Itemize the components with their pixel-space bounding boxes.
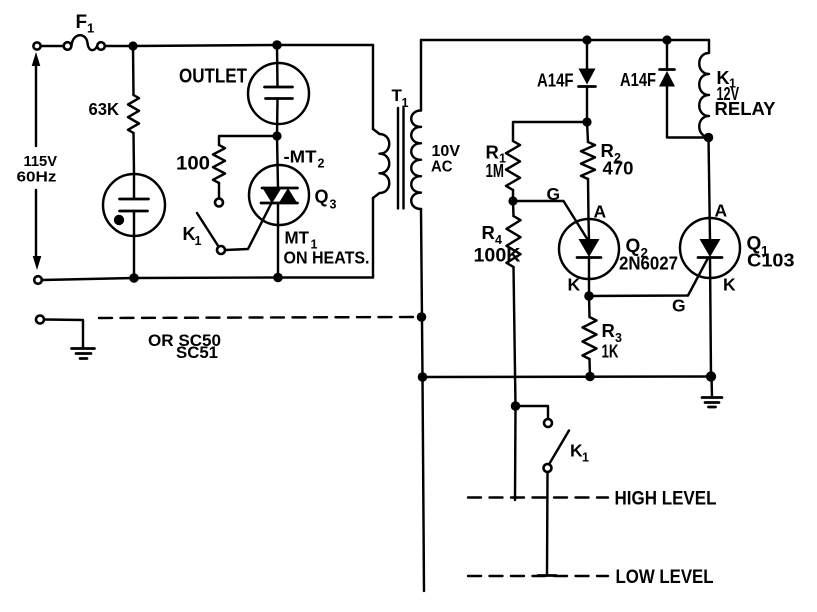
svg-text:OUTLET: OUTLET: [179, 66, 247, 88]
wire: [219, 136, 277, 145]
svg-text:1K: 1K: [602, 341, 619, 362]
transformer T1 secondary: [411, 40, 421, 209]
diode A14F left: [579, 40, 596, 122]
resistor 63K: [128, 46, 139, 175]
wire: [278, 276, 373, 278]
wire low level probe: [546, 472, 549, 575]
svg-text:-MT: -MT: [284, 147, 317, 167]
svg-text:A: A: [715, 201, 728, 221]
SCR Q1: [680, 138, 740, 377]
svg-text:F: F: [76, 12, 88, 33]
wire gate Q1: [589, 258, 708, 296]
svg-text:470: 470: [603, 158, 634, 179]
svg-text:100K: 100K: [474, 246, 521, 267]
junction: [584, 291, 594, 301]
svg-text:K: K: [723, 275, 736, 295]
svg-text:MT: MT: [285, 228, 310, 248]
resistor R1: [506, 141, 520, 190]
svg-text:HIGH LEVEL: HIGH LEVEL: [615, 489, 717, 510]
svg-text:AC: AC: [431, 159, 453, 176]
ground symbol left: [72, 349, 95, 359]
resistor R4: [507, 201, 521, 406]
svg-text:LOW LEVEL: LOW LEVEL: [616, 567, 714, 588]
wire: [42, 45, 64, 47]
junction: [418, 372, 428, 382]
svg-text:1: 1: [195, 234, 202, 248]
junction: [129, 273, 139, 283]
wire gate Q3: [226, 204, 272, 250]
svg-text:1M: 1M: [486, 160, 505, 181]
wire top rail left section: [133, 45, 277, 46]
resistor 100: [213, 145, 225, 183]
junction: [128, 41, 137, 50]
wire gate Q2: [513, 201, 591, 245]
junction: [662, 35, 671, 44]
resistor R3: [583, 296, 597, 377]
wire: [134, 276, 278, 279]
svg-text:G: G: [672, 296, 686, 316]
resistor R2: [581, 122, 595, 219]
junction: [585, 372, 595, 382]
terminal bottom-left: [34, 276, 42, 284]
junction: [417, 312, 427, 322]
svg-text:2: 2: [318, 157, 325, 171]
svg-text:3: 3: [330, 198, 337, 212]
terminal 100 bottom: [215, 199, 223, 207]
svg-text:Q: Q: [315, 187, 329, 207]
svg-text:115V: 115V: [24, 154, 58, 170]
probe tip bar: [538, 574, 556, 577]
svg-text:100: 100: [176, 154, 210, 175]
wire secondary bus down: [421, 209, 423, 377]
svg-text:A: A: [594, 202, 607, 222]
junction: [272, 131, 281, 140]
transformer T1 primary: [373, 45, 389, 278]
switch K1 left: [197, 213, 225, 254]
wire: [277, 44, 373, 46]
junction: [704, 133, 714, 143]
wire: [512, 190, 514, 201]
PUT Q2: [559, 219, 619, 296]
wire: [513, 122, 587, 141]
svg-text:R: R: [482, 222, 495, 243]
junction: [582, 117, 591, 126]
svg-text:C103: C103: [747, 250, 795, 271]
transformer T1 core: [398, 108, 404, 209]
svg-text:60Hz: 60Hz: [17, 170, 57, 186]
junction: [272, 40, 282, 50]
relay coil K1: [699, 40, 709, 137]
neon lamp left: [103, 174, 165, 278]
svg-text:10V: 10V: [432, 143, 461, 160]
wire high level probe: [514, 406, 517, 500]
svg-text:SC51: SC51: [176, 344, 218, 362]
junction: [582, 35, 591, 44]
junction: [508, 196, 517, 205]
source arrow 115V 60Hz: [32, 52, 42, 270]
svg-text:K: K: [568, 275, 581, 295]
svg-text:A14F: A14F: [620, 70, 656, 90]
svg-text:A14F: A14F: [537, 71, 574, 91]
wire bottom rail right section: [423, 375, 712, 378]
wire tank common probe: [423, 377, 425, 591]
svg-text:G: G: [547, 184, 561, 204]
switch K1 bottom: [516, 406, 570, 472]
wire top rail right section: [421, 39, 709, 41]
wire: [218, 183, 220, 199]
svg-text:1: 1: [582, 451, 589, 465]
wire dashed to chassis: [99, 317, 417, 318]
wire bottom rail left section: [42, 278, 134, 280]
triac Q3: [249, 136, 309, 278]
outlet lamp: [248, 45, 309, 136]
junction: [706, 371, 716, 381]
svg-text:RELAY: RELAY: [715, 98, 777, 119]
ground symbol right: [702, 377, 722, 408]
svg-text:R: R: [602, 320, 615, 341]
svg-text:1: 1: [87, 21, 94, 36]
wire: [105, 45, 130, 47]
terminal top-left line input: [33, 42, 40, 49]
svg-text:ON HEATS.: ON HEATS.: [284, 248, 370, 268]
dashed line HIGH LEVEL: [468, 496, 608, 498]
svg-text:2N6027: 2N6027: [619, 254, 678, 274]
dashed ground line OR SC50 SC51: [36, 316, 83, 348]
dashed line LOW LEVEL: [468, 575, 608, 577]
diode A14F right: [659, 40, 706, 138]
fuse F1: [64, 35, 105, 50]
svg-text:63K: 63K: [89, 99, 120, 119]
junction: [273, 273, 283, 283]
junction: [511, 401, 521, 411]
